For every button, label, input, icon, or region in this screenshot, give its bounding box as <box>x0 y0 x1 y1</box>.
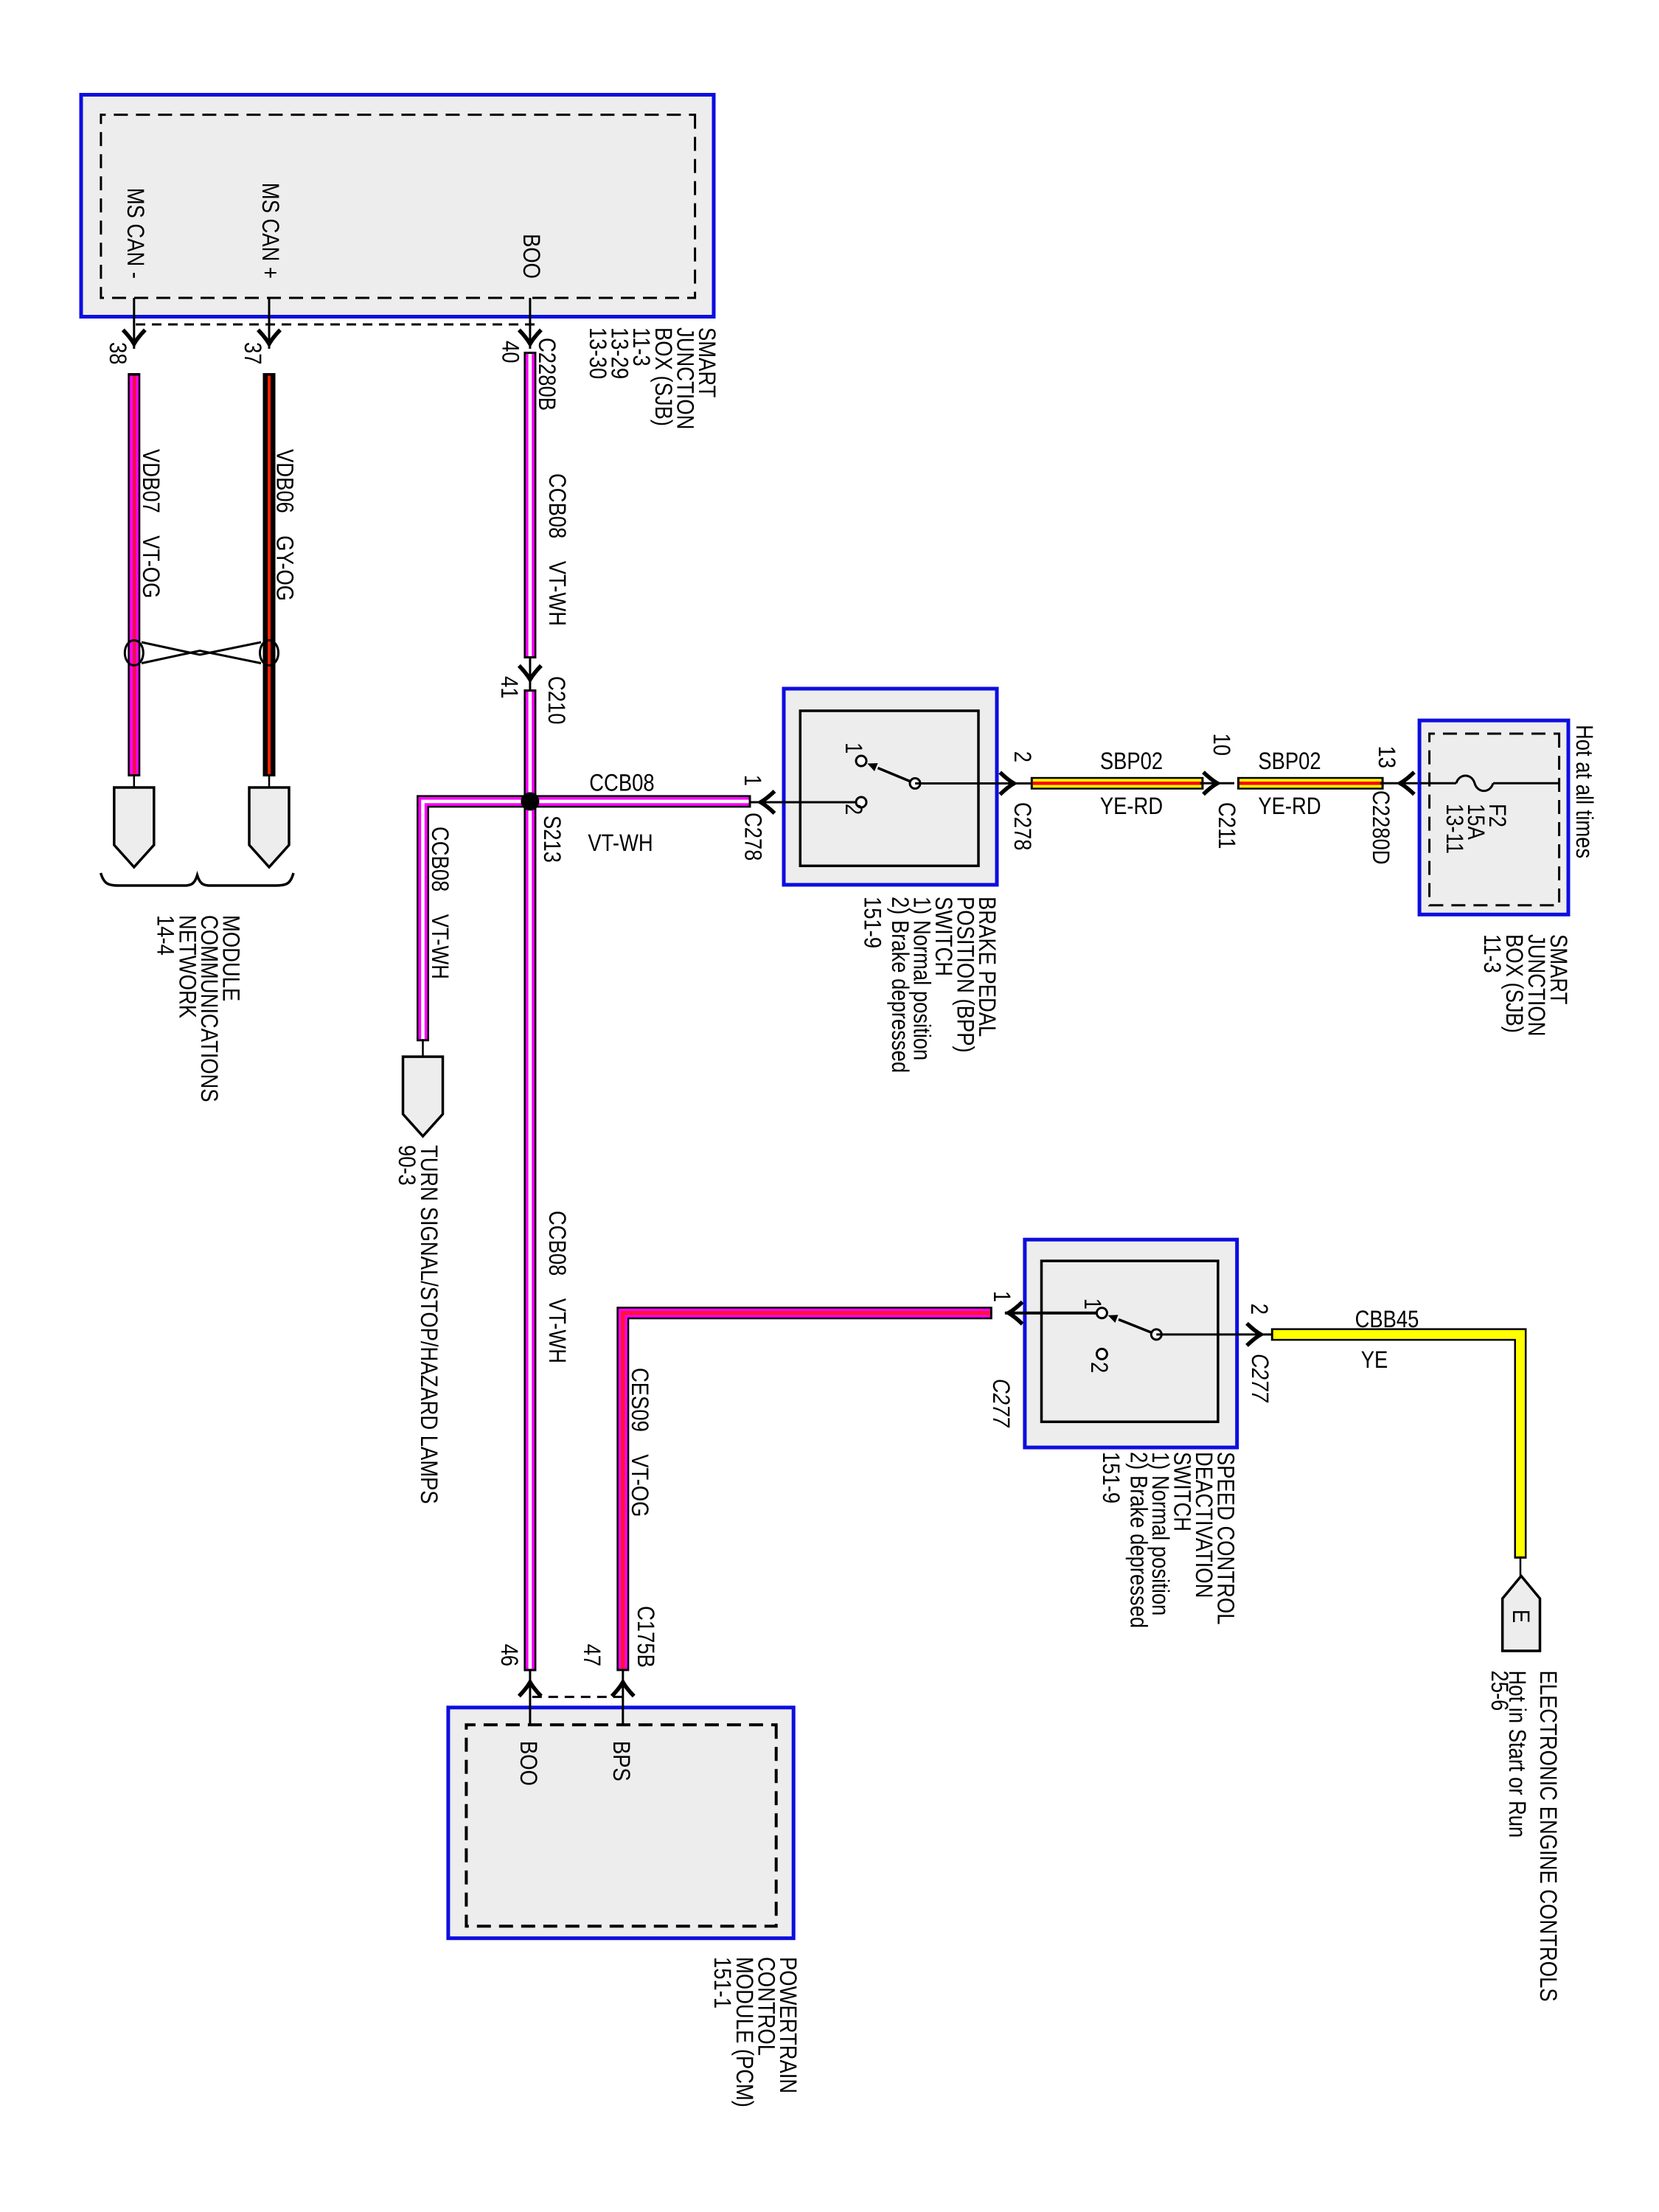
wire stub to terminal (MS CAN -) <box>133 774 136 787</box>
svg-text:YE: YE <box>1361 1346 1388 1373</box>
svg-text:47: 47 <box>579 1644 605 1667</box>
connector C175B dashed boundary at PCM <box>530 1696 623 1698</box>
svg-text:2: 2 <box>1086 1362 1113 1373</box>
svg-text:CBB45: CBB45 <box>1355 1306 1419 1332</box>
connector arrow pin 38 <box>123 330 145 344</box>
connector arrow C210 pin 41 <box>519 666 541 680</box>
wire CCB08&nbsp;&nbsp;&nbsp;&nbsp;VT-WH segment C210 to PCM pin 46 <box>524 689 536 1672</box>
svg-text:VT-WH: VT-WH <box>588 829 653 856</box>
wire stub to terminal (turn signal) <box>422 1039 424 1057</box>
svg-text:13-30: 13-30 <box>585 327 611 379</box>
box U2 SMART JUNCTION BOX fuse section <box>1419 720 1568 914</box>
svg-text:13-11: 13-11 <box>1441 804 1468 854</box>
wire SBP02 YE-RD segment 2 <box>1237 777 1384 790</box>
terminal pentagon MS CAN - <box>114 787 154 867</box>
svg-text:2: 2 <box>841 804 867 815</box>
label SJB block SMART JUNCTION BOX (SJB) 11-3 13-29 13-30 <box>585 327 720 430</box>
wire CES09&nbsp;&nbsp;&nbsp;&nbsp;VT-OG speed switch to PCM pin 47 <box>623 1313 992 1672</box>
svg-text:37: 37 <box>240 342 266 365</box>
brace for module communications network <box>101 873 293 886</box>
BPP switch pivot contact <box>910 779 920 789</box>
label block POWERTRAIN CONTROL MODULE (PCM) 151-1 <box>709 1957 801 2107</box>
svg-text:C277: C277 <box>988 1379 1015 1428</box>
svg-text:E: E <box>1508 1610 1534 1623</box>
pin 38 lead <box>133 298 135 349</box>
speed switch pin 1 lead (contact 1 to C277) <box>1005 1312 1102 1315</box>
box BPP switch (BRAKE PEDAL POSITION) <box>784 689 997 885</box>
wire branch CCB08&nbsp;&nbsp;&nbsp;&nbsp;VT-WH to BPP switch <box>530 795 751 807</box>
wire CCB08&nbsp;&nbsp;&nbsp;&nbsp;VT-WH segment SJB to C210 <box>524 352 536 658</box>
svg-text:MS CAN +: MS CAN + <box>257 183 284 279</box>
BPP switch pin 1 lead (contact 2 to C278) <box>750 801 861 804</box>
svg-text:BOO: BOO <box>515 1741 542 1786</box>
label MODULE COMMUNICATIONS NETWORK 14-4 <box>153 915 245 1102</box>
svg-text:2: 2 <box>1246 1304 1273 1315</box>
svg-text:2) Brake depressed: 2) Brake depressed <box>887 897 914 1073</box>
speed switch contact 1 <box>1096 1308 1107 1318</box>
svg-text:C210: C210 <box>543 676 570 725</box>
svg-text:11-3: 11-3 <box>1479 934 1506 973</box>
svg-text:151-9: 151-9 <box>860 897 886 948</box>
wire SBP02 YE-RD segment 1 <box>1031 777 1204 790</box>
label block SMART JUNCTION BOX (SJB) 11-3 (fuse box) <box>1479 934 1572 1037</box>
label block SPEED CONTROL DEACTIVATION SWITCH <box>1098 1452 1239 1628</box>
connector arrow C2280D pin 13 <box>1400 772 1414 794</box>
svg-text:BPS: BPS <box>608 1741 635 1781</box>
svg-text:2) Brake depressed: 2) Brake depressed <box>1126 1452 1152 1628</box>
svg-text:C277: C277 <box>1247 1354 1273 1403</box>
svg-text:1: 1 <box>841 742 867 754</box>
svg-text:CCB08 VT-WH: CCB08 VT-WH <box>544 1211 571 1363</box>
svg-text:CCB08: CCB08 <box>589 770 654 796</box>
connector arrow C277 pin 2 <box>1247 1324 1261 1346</box>
svg-text:2: 2 <box>1009 751 1036 762</box>
wire VDB06&nbsp;&nbsp;&nbsp;&nbsp;GY-OG (MS CAN +) <box>263 373 276 776</box>
svg-text:C175B: C175B <box>633 1606 659 1668</box>
BPP switch arm with arrowhead <box>867 763 909 781</box>
wire CBB45 YE speed switch to electronic engine controls <box>1271 1335 1520 1559</box>
speed switch contact 2 <box>1096 1349 1107 1359</box>
svg-text:C278: C278 <box>1009 802 1036 851</box>
BPP switch contact 2 <box>856 797 866 807</box>
fuse F2 15A element symbol <box>1456 776 1493 791</box>
terminal pentagon E <box>1503 1576 1540 1651</box>
svg-text:46: 46 <box>496 1644 523 1667</box>
svg-text:C211: C211 <box>1214 802 1240 849</box>
label block BRAKE PEDAL POSITION (BPP) SWITCH <box>860 897 1001 1073</box>
connector arrow C277 pin 1 <box>1009 1302 1023 1324</box>
pin 37 lead <box>268 298 271 349</box>
svg-text:YE-RD: YE-RD <box>1100 793 1163 819</box>
connector C211 lead <box>1200 782 1234 785</box>
svg-text:90-3: 90-3 <box>394 1145 420 1186</box>
connector arrow C278 pin 1 <box>761 791 775 813</box>
svg-text:VDB06 GY-OG: VDB06 GY-OG <box>272 449 299 601</box>
svg-text:SBP02: SBP02 <box>1100 748 1163 774</box>
svg-text:13: 13 <box>1374 746 1400 769</box>
connector arrow pin 37 <box>258 330 280 344</box>
connector arrow PCM pin 46 <box>519 1682 541 1696</box>
svg-text:40: 40 <box>498 341 524 364</box>
svg-text:SBP02: SBP02 <box>1258 748 1321 774</box>
svg-text:14-4: 14-4 <box>153 915 179 956</box>
junction S213 <box>521 792 539 810</box>
connector arrow C211 pin 10 <box>1203 772 1217 794</box>
connector arrow PCM pin 47 <box>612 1682 634 1696</box>
connector C2280D lead <box>1380 782 1419 785</box>
svg-text:41: 41 <box>496 676 523 699</box>
svg-text:10: 10 <box>1208 734 1235 757</box>
svg-text:Hot at all times: Hot at all times <box>1571 725 1598 858</box>
svg-text:151-9: 151-9 <box>1098 1452 1124 1503</box>
wire stub to terminal (MS CAN +) <box>268 774 271 787</box>
speed switch arm with arrowhead <box>1108 1315 1151 1332</box>
svg-text:S213: S213 <box>539 815 566 863</box>
svg-text:VDB07 VT-OG: VDB07 VT-OG <box>138 449 164 599</box>
connector C210 lead <box>529 656 531 692</box>
label fuse F2 15A 13-11 <box>1441 804 1511 854</box>
wire branch CCB08&nbsp;&nbsp;&nbsp;&nbsp;VT-WH to turn signal lamps <box>423 801 530 1041</box>
svg-text:CCB08 VT-WH: CCB08 VT-WH <box>427 827 453 979</box>
terminal pentagon turn signal lamps <box>403 1057 443 1136</box>
svg-text:C2280D: C2280D <box>1368 790 1394 865</box>
svg-text:CCB08 VT-WH: CCB08 VT-WH <box>544 473 571 626</box>
fuse feed line inside SJB <box>1419 782 1456 785</box>
svg-text:CES09 VT-OG: CES09 VT-OG <box>627 1368 653 1517</box>
svg-text:38: 38 <box>105 342 131 365</box>
svg-text:1: 1 <box>1079 1298 1106 1310</box>
svg-text:TURN SIGNAL/STOP/HAZARD LAMPS: TURN SIGNAL/STOP/HAZARD LAMPS <box>416 1145 442 1504</box>
svg-text:BOO: BOO <box>518 234 545 279</box>
label TURN SIGNAL/STOP/HAZARD LAMPS 90-3 <box>394 1145 442 1504</box>
pin 40 lead <box>529 298 531 349</box>
svg-text:C2280B: C2280B <box>534 338 560 411</box>
svg-text:ELECTRONIC ENGINE CONTROLS: ELECTRONIC ENGINE CONTROLS <box>1535 1671 1562 2002</box>
connector arrow C278 pin 2 <box>1000 773 1014 795</box>
svg-text:151-1: 151-1 <box>709 1957 736 2008</box>
speed switch pivot contact <box>1151 1329 1161 1340</box>
wire stub to terminal E <box>1520 1557 1522 1576</box>
PCM pin 46 lead <box>529 1669 531 1725</box>
speed switch pin 2 lead (pivot to C277) <box>1156 1333 1272 1335</box>
BPP switch pin 2 lead (pivot to C278) <box>915 782 1032 785</box>
twisted pair symbol on MS CAN wires <box>125 640 278 665</box>
box speed control deactivation switch <box>1025 1239 1237 1447</box>
connector arrow pin 40 <box>519 330 541 344</box>
terminal pentagon MS CAN + <box>249 787 289 867</box>
svg-text:1: 1 <box>989 1291 1015 1302</box>
svg-text:C278: C278 <box>740 813 767 861</box>
box U1 SMART JUNCTION BOX (SJB) <box>81 95 714 317</box>
svg-text:1: 1 <box>740 775 766 786</box>
wire VDB07&nbsp;&nbsp;&nbsp;&nbsp;VT-OG (MS CAN -) <box>128 373 140 776</box>
box powertrain control module (PCM) <box>448 1708 793 1938</box>
connector C2280B dashed boundary at SJB <box>134 324 535 326</box>
PCM pin 47 lead <box>622 1669 624 1725</box>
svg-text:YE-RD: YE-RD <box>1258 793 1321 819</box>
label block ELECTRONIC ENGINE CONTROLS <box>1486 1671 1562 2002</box>
svg-text:25-6: 25-6 <box>1486 1671 1513 1711</box>
svg-text:MS CAN -: MS CAN - <box>122 188 149 279</box>
BPP switch contact 1 <box>856 756 866 766</box>
